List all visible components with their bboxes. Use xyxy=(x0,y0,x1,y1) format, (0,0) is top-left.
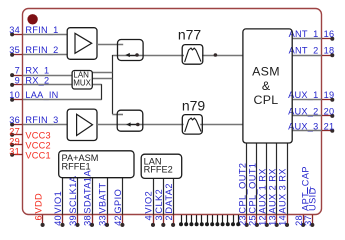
svg-text:VIO2: VIO2 xyxy=(144,191,154,214)
svg-text:USID: USID xyxy=(308,187,318,211)
svg-text:&: & xyxy=(262,79,271,93)
svg-text:38: 38 xyxy=(83,215,93,226)
svg-text:CPL: CPL xyxy=(253,93,278,107)
svg-text:29: 29 xyxy=(9,137,20,147)
svg-text:SDATA1A: SDATA1A xyxy=(83,170,93,214)
pin 40 VIO1 xyxy=(62,215,64,225)
svg-text:31: 31 xyxy=(9,147,20,157)
pin 34 RFIN_1 xyxy=(12,34,23,36)
svg-text:VCC1: VCC1 xyxy=(25,150,51,160)
junction on n77 line xyxy=(214,53,218,57)
pin 12 AUX 1 RX xyxy=(266,215,268,225)
wire RX_2 xyxy=(23,84,72,86)
pin 19 AUX_1 xyxy=(322,99,333,101)
symbol outline U1 xyxy=(23,9,322,215)
svg-text:VCC2: VCC2 xyxy=(25,140,51,150)
pin 42 GPIO xyxy=(122,215,124,225)
pin 37 USID xyxy=(312,215,314,225)
pin 23 CPL_OUT2 xyxy=(246,215,248,225)
LAN RFFE2 block xyxy=(141,154,182,178)
pin 14 AUX 3 RX xyxy=(287,215,289,225)
svg-text:25: 25 xyxy=(248,215,258,226)
filter FL1 n77 xyxy=(182,45,203,65)
pin 21 AUX_3 xyxy=(322,130,333,132)
svg-text:3: 3 xyxy=(154,215,164,220)
pin 31 VCC1 xyxy=(12,154,23,156)
wire ANT_2 xyxy=(292,55,322,57)
wire MUX out B xyxy=(92,78,112,80)
amplifier A1 triangle xyxy=(75,33,92,53)
wire n77 to ASM xyxy=(202,55,243,57)
svg-text:SCLK1A: SCLK1A xyxy=(68,175,78,213)
svg-text:RX_1: RX_1 xyxy=(25,66,49,76)
ASM and CPL block U2 xyxy=(243,29,292,143)
wire riser MUX to switches xyxy=(112,55,114,114)
wire AUX_2 xyxy=(292,115,322,117)
pin 7 RX_1 xyxy=(12,75,23,77)
LAN MUX box xyxy=(72,71,92,90)
switch SW1 box xyxy=(118,40,144,61)
wire GPIO xyxy=(122,178,124,215)
svg-text:RFFE2: RFFE2 xyxy=(144,165,173,175)
svg-text:AUX 3 RX: AUX 3 RX xyxy=(278,168,288,213)
svg-text:4: 4 xyxy=(144,215,154,220)
wire AUX 2 RX xyxy=(276,143,278,215)
svg-text:RFFE1: RFFE1 xyxy=(62,161,91,171)
wire RFIN_1 xyxy=(23,34,68,36)
svg-text:20: 20 xyxy=(324,106,335,116)
wire AUX_1 xyxy=(292,99,322,101)
svg-text:VBATT: VBATT xyxy=(98,182,108,213)
wire AUX_3 xyxy=(292,130,322,132)
svg-text:ANT_1: ANT_1 xyxy=(289,29,319,39)
wire MUX out C xyxy=(92,84,101,86)
filter FL2 n79 xyxy=(182,115,202,135)
svg-text:n77: n77 xyxy=(178,26,202,42)
svg-text:RFIN_2: RFIN_2 xyxy=(25,45,58,55)
wire n79 to ASM xyxy=(200,124,243,126)
amplifier A2 box xyxy=(67,109,97,140)
pin 3 CLK2 xyxy=(163,215,165,225)
pin 13 AUX 2 RX xyxy=(276,215,278,225)
svg-text:RFIN_1: RFIN_1 xyxy=(25,25,58,35)
pin 6 VDD xyxy=(42,215,44,225)
wire AUX 3 RX xyxy=(287,143,289,215)
wire LAA riser xyxy=(101,84,103,100)
wire SDATA1A xyxy=(92,178,94,215)
svg-text:CLK2: CLK2 xyxy=(154,189,164,214)
svg-text:VCC3: VCC3 xyxy=(25,130,51,140)
wire SW2 through line xyxy=(97,124,184,126)
pin 10 LAA_IN xyxy=(12,99,23,101)
svg-text:37: 37 xyxy=(303,215,313,226)
pin 18 ANT_2 xyxy=(322,55,333,57)
svg-text:2: 2 xyxy=(164,215,174,220)
wire A1 out to SW1 xyxy=(97,44,123,46)
wire MUX out A xyxy=(92,72,112,74)
amplifier A1 box xyxy=(67,28,97,60)
wire LAA_IN xyxy=(23,99,102,101)
svg-text:9: 9 xyxy=(15,75,20,85)
switch SW1 arrow xyxy=(129,55,137,57)
svg-text:n79: n79 xyxy=(182,98,206,114)
pin 36 RFIN_3 xyxy=(12,124,23,126)
svg-text:36: 36 xyxy=(9,115,20,125)
svg-text:12: 12 xyxy=(258,215,268,226)
pin 4 VIO2 xyxy=(153,215,155,225)
wire riser to SW2 port xyxy=(112,114,123,116)
switch SW2 box xyxy=(117,110,143,131)
svg-text:7: 7 xyxy=(15,66,20,76)
svg-text:33: 33 xyxy=(98,215,108,226)
svg-text:MUX: MUX xyxy=(73,79,91,88)
wire RFIN_2 xyxy=(23,54,68,56)
svg-text:6: 6 xyxy=(33,215,43,220)
svg-text:ANT_2: ANT_2 xyxy=(289,46,319,56)
pin 27 VCC3 xyxy=(12,134,23,136)
svg-text:VDD: VDD xyxy=(33,193,43,214)
svg-text:21: 21 xyxy=(324,121,335,131)
svg-text:34: 34 xyxy=(9,25,20,35)
pin 38 SDATA1A xyxy=(92,215,94,225)
svg-text:19: 19 xyxy=(324,90,335,100)
svg-text:14: 14 xyxy=(278,215,288,226)
svg-text:39: 39 xyxy=(68,215,78,226)
wire SCLK1A xyxy=(77,178,79,215)
svg-text:GPIO: GPIO xyxy=(113,189,123,214)
svg-text:40: 40 xyxy=(53,215,63,226)
wire DATA2 xyxy=(173,178,175,214)
wire CPL_OUT2 xyxy=(246,143,248,215)
svg-text:RFIN_3: RFIN_3 xyxy=(25,115,58,125)
svg-text:ASM: ASM xyxy=(252,65,280,79)
pin 28 APT_CAP xyxy=(303,215,305,225)
pin 2 DATA2 xyxy=(173,215,175,225)
svg-text:16: 16 xyxy=(324,29,335,39)
svg-text:VIO1: VIO1 xyxy=(53,191,63,214)
amplifier A2 triangle xyxy=(77,114,93,135)
pin 39 SCLK1A xyxy=(77,215,79,225)
pin 29 VCC2 xyxy=(12,144,23,146)
svg-text:27: 27 xyxy=(9,127,20,137)
wire VBATT xyxy=(107,178,109,215)
svg-text:42: 42 xyxy=(113,215,123,226)
wire AUX 1 RX xyxy=(266,143,268,215)
wire RX_1 xyxy=(23,75,72,77)
pin 9 RX_2 xyxy=(12,84,23,86)
ground pins GND xyxy=(181,215,183,224)
pin 16 ANT_1 xyxy=(322,38,333,40)
pin 1 marker dot xyxy=(27,14,37,24)
pin 33 VBATT xyxy=(107,215,109,225)
svg-text:LAA_IN: LAA_IN xyxy=(25,90,58,100)
wire CLK2 xyxy=(163,178,165,214)
pin 20 AUX_2 xyxy=(322,115,333,117)
wire SW1 through line xyxy=(112,55,184,57)
svg-text:DATA2: DATA2 xyxy=(164,183,174,214)
svg-text:18: 18 xyxy=(324,46,335,56)
svg-text:10: 10 xyxy=(9,90,20,100)
pin 35 RFIN_2 xyxy=(12,54,23,56)
USID overline xyxy=(307,187,309,194)
svg-text:13: 13 xyxy=(267,215,277,226)
wire RFIN_3 xyxy=(23,124,67,126)
switch SW2 arrow xyxy=(130,124,138,126)
wire ANT_1 xyxy=(292,38,322,40)
pin 25 CPL_OUT1 xyxy=(256,215,258,225)
wire VIO1 xyxy=(62,178,64,215)
svg-text:35: 35 xyxy=(9,45,20,55)
PA+ASM RFFE1 block xyxy=(59,151,134,178)
wire CPL_OUT1 xyxy=(256,143,258,215)
wire VIO2 xyxy=(153,178,155,214)
